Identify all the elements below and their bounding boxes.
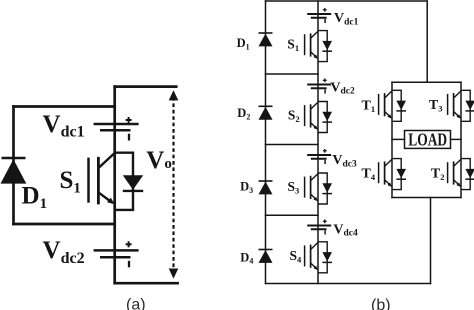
IGBT T1 with antiparallel diode — [379, 90, 406, 121]
svg-text:(b): (b) — [371, 297, 391, 310]
wire bottom-left — [14, 223, 115, 226]
battery Vdc3 (figure b) — [307, 149, 331, 164]
wire top stub to H-bridge — [426, 1, 428, 82]
wire bottom stub from H-bridge — [430, 198, 432, 284]
wire H-bridge bottom rail — [392, 197, 461, 199]
IGBT T2 with antiparallel diode — [448, 159, 474, 190]
Vo dashed arrow — [169, 90, 179, 278]
wire row 4 — [266, 214, 319, 216]
wire top bus — [266, 0, 428, 2]
H-bridge frame — [392, 82, 461, 197]
wire middle column (b) — [317, 1, 319, 284]
battery Vdc1 (figure a) — [94, 117, 139, 141]
diode D4 (figure b) — [259, 250, 273, 263]
wire left rail (b) — [265, 1, 267, 284]
IGBT S4 with antiparallel diode — [305, 242, 332, 273]
svg-text:LOAD: LOAD — [408, 130, 447, 150]
wire H-bridge left rail — [391, 82, 393, 197]
IGBT S2 with antiparallel diode — [305, 102, 332, 133]
battery Vdc2 (figure b) — [307, 78, 331, 93]
wire to LOAD left — [392, 138, 405, 140]
IGBT S3 with antiparallel diode — [305, 173, 332, 204]
wire H-bridge right rail — [460, 82, 462, 197]
wire center column — [113, 87, 116, 284]
battery Vdc1 (figure b) — [307, 8, 331, 23]
IGBT T4 with antiparallel diode — [379, 159, 406, 190]
wire H-bridge top rail — [392, 81, 461, 83]
wire from LOAD right — [451, 138, 462, 140]
wire row 2 — [266, 73, 319, 75]
wire left rail — [12, 107, 15, 225]
diode D1 (figure a) — [1, 158, 27, 184]
figure (b) cascaded multilevel inverter — [266, 1, 431, 284]
battery Vdc4 (figure b) — [307, 219, 331, 234]
diode D3 (figure b) — [259, 181, 273, 194]
IGBT S1 with antiparallel diode (figure a) — [89, 153, 144, 210]
wire bottom bus — [266, 283, 431, 285]
wire top-left — [14, 105, 115, 108]
battery Vdc2 (figure a) — [94, 241, 139, 267]
IGBT S1 with antiparallel diode — [305, 31, 332, 62]
IGBT T3 with antiparallel diode — [448, 90, 474, 121]
wire top — [115, 85, 177, 88]
LOAD box — [405, 131, 451, 149]
diode D1 (figure b) — [259, 33, 273, 46]
wire row 3 — [266, 144, 319, 146]
svg-text:(a): (a) — [126, 297, 146, 310]
diode D2 (figure b) — [259, 106, 273, 119]
wire bottom — [115, 282, 178, 285]
figure (a) single H-bridge-cell circuit — [14, 87, 178, 284]
